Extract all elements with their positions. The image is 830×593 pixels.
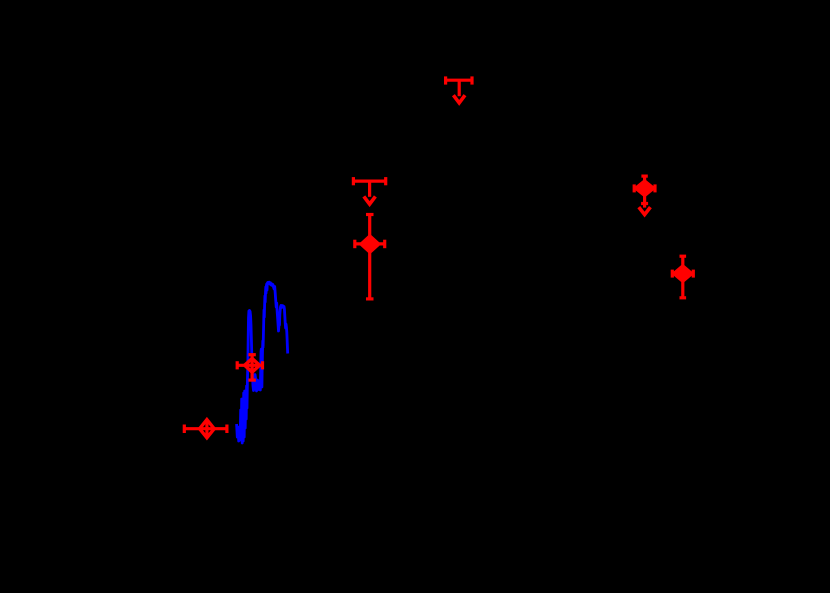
upper limit UL1: [446, 76, 472, 103]
spectrum curve (blue): [237, 282, 288, 443]
data point P1: [355, 215, 385, 299]
upper limit UL2: [353, 177, 385, 204]
data point P5: [184, 419, 227, 439]
data point P4: [237, 355, 262, 380]
data point P2 (with lower-limit arrow): [634, 176, 655, 215]
data point P3: [672, 256, 693, 298]
